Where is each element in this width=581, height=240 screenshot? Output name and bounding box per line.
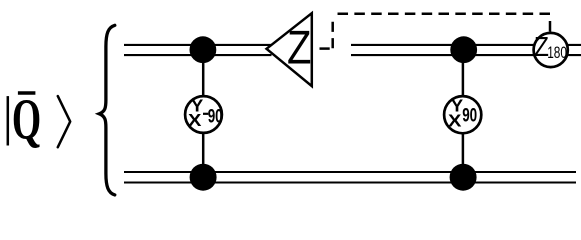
brace [99, 25, 115, 195]
top wire segment 1 [124, 45, 272, 55]
top wire segment 2 [351, 45, 581, 55]
bottom wire [124, 172, 576, 183]
dashed classical wire riser [331, 16, 334, 48]
gate circle Y/X^-90 [185, 96, 223, 133]
gate circle Z180 [534, 31, 568, 68]
svg-text:180: 180 [547, 44, 567, 62]
svg-text:X: X [448, 111, 462, 130]
control dot bottom-left [190, 164, 217, 191]
svg-text:90: 90 [208, 105, 223, 127]
gate circle Y/X^90 [444, 96, 481, 133]
vertical connector left [202, 50, 205, 178]
ket label |Q-bar> [8, 87, 70, 152]
control dot top-right [450, 36, 477, 63]
svg-text:90: 90 [462, 104, 477, 126]
vertical connector right [462, 50, 465, 178]
dashed classical wire horizontal from triangle [314, 47, 333, 50]
svg-text:Q: Q [12, 87, 41, 152]
Z measurement triangle [267, 13, 312, 86]
svg-text:Z: Z [287, 23, 311, 75]
dashed wire drop to Z180 [549, 21, 552, 32]
svg-text:X: X [188, 110, 202, 129]
control dot bottom-right [450, 164, 477, 191]
control dot top-left [190, 36, 217, 63]
dashed classical wire top run [333, 12, 551, 15]
